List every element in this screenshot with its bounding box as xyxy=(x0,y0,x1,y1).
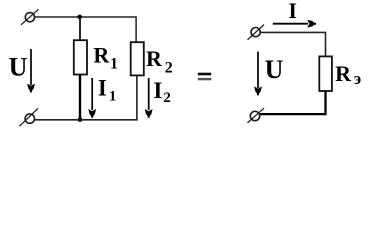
svg-text:U: U xyxy=(9,52,28,81)
arrow I2 (down) xyxy=(145,78,153,118)
svg-text:2: 2 xyxy=(165,60,173,77)
wire R1 bottom lead (thick) xyxy=(79,75,81,120)
wire bottom-left horizontal with corner up to R2 xyxy=(35,75,137,119)
resistor Re xyxy=(319,56,332,91)
svg-text:R: R xyxy=(93,42,110,67)
wire R1 top lead xyxy=(79,17,81,40)
wire Re bottom lead + bottom-right horizontal (thick) xyxy=(260,91,326,114)
arrow U left (down) xyxy=(27,49,35,92)
equals sign xyxy=(198,73,211,76)
svg-text:R: R xyxy=(335,61,352,86)
resistor R2 xyxy=(131,42,144,75)
svg-text:2: 2 xyxy=(163,90,171,106)
terminal bottom-left xyxy=(20,108,39,126)
svg-text:U: U xyxy=(265,55,284,84)
svg-text:I: I xyxy=(288,0,297,23)
terminal bottom-right xyxy=(248,108,265,123)
terminal top-right xyxy=(248,25,265,40)
wire top-right horizontal with corner down to Re xyxy=(260,32,325,56)
svg-text:R: R xyxy=(146,46,163,71)
arrow U right (down) xyxy=(254,52,262,96)
resistor R1 xyxy=(74,40,87,74)
svg-text:I: I xyxy=(98,76,107,101)
arrow I1 (down) xyxy=(88,78,96,118)
terminal top-left xyxy=(21,9,39,24)
svg-text:I: I xyxy=(153,78,162,103)
svg-text:э: э xyxy=(354,69,361,88)
wire top-left horizontal with corner down to R2 xyxy=(35,17,137,42)
arrow I (right) xyxy=(273,20,316,28)
node junction dot top xyxy=(77,15,82,20)
svg-text:1: 1 xyxy=(109,89,117,105)
node junction dot bottom xyxy=(78,117,83,122)
svg-text:1: 1 xyxy=(110,55,118,72)
